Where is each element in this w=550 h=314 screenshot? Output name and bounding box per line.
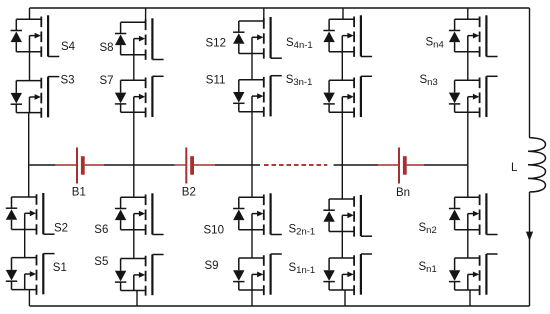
transistor S11 (MOSFET + body diode) <box>233 76 282 117</box>
svg-text:B2: B2 <box>182 187 196 199</box>
transistor S6 (MOSFET + body diode) <box>115 193 164 235</box>
wire middle bus black segment leg1-B1 <box>30 164 56 166</box>
svg-text:S4: S4 <box>61 41 76 53</box>
transistor S8 (MOSFET + body diode) <box>115 18 164 60</box>
svg-text:Sn4: Sn4 <box>426 37 444 51</box>
transistor S2n-1 (MOSFET + body diode) <box>323 195 372 237</box>
transistor S10 (MOSFET + body diode) <box>233 193 282 235</box>
svg-text:S7: S7 <box>100 75 114 87</box>
wire middle bus red segment into Bn <box>378 164 399 166</box>
transistor Sn3 (MOSFET + body diode) <box>449 76 498 117</box>
wire top rail <box>30 7 530 9</box>
svg-text:S11: S11 <box>206 75 226 87</box>
wire leg3 between S12 and S11 <box>251 54 253 80</box>
svg-text:S2n-1: S2n-1 <box>289 223 316 237</box>
wire leg5 Sn3 source to bus to Sn2 drain <box>467 112 469 197</box>
wire middle bus red segment into B2 <box>175 164 187 166</box>
svg-text:S12: S12 <box>206 37 226 49</box>
svg-text:S3: S3 <box>61 75 75 87</box>
svg-text:Sn3: Sn3 <box>420 74 438 88</box>
svg-text:Bn: Bn <box>396 187 410 199</box>
current arrow on right rail <box>526 232 533 241</box>
wire leg2 between S8 and S7 <box>133 55 135 81</box>
transistor S4 (MOSFET + body diode) <box>11 15 60 57</box>
svg-text:S10: S10 <box>204 225 224 237</box>
battery B2 <box>186 148 194 184</box>
wire leg5 exit to bottom rail <box>469 290 471 306</box>
wire leg2 between S6 and S5 <box>133 230 135 259</box>
wire leg1 between S2 and S1 <box>24 230 26 258</box>
wire leg1 between S4 and S3 <box>29 52 31 81</box>
battery B1 <box>77 148 85 184</box>
wire right rail lower segment <box>529 192 531 306</box>
wire middle bus red segment B1-right <box>85 164 104 166</box>
wire leg4 entry from top rail <box>342 8 344 19</box>
wire leg2 entry from top rail <box>145 8 147 22</box>
transistor S3 (MOSFET + body diode) <box>11 77 60 118</box>
wire leg2 S7 source to bus to S6 drain <box>133 112 135 197</box>
transistor Sn1 (MOSFET + body diode) <box>449 254 498 295</box>
transistor S2 (MOSFET + body diode) <box>6 193 55 235</box>
wire middle bus black segment B2-leg3 <box>215 164 260 166</box>
svg-text:S8: S8 <box>100 42 114 54</box>
inductor L <box>528 138 546 192</box>
wire leg3 exit to bottom rail <box>251 290 253 306</box>
wire leg1 entry from top rail <box>29 8 31 19</box>
wire bottom rail <box>30 305 530 307</box>
wire leg4 between S4n-1 and S3n-1 <box>341 52 343 81</box>
wire right rail upper segment <box>529 8 531 138</box>
transistor Sn4 (MOSFET + body diode) <box>449 15 498 57</box>
wire middle bus black segment B1-B2 <box>104 164 175 166</box>
wire middle bus black segment Bn-leg5 <box>424 164 468 166</box>
wire leg3 entry from top rail <box>263 8 265 21</box>
battery Bn <box>399 148 407 184</box>
svg-text:S1: S1 <box>53 262 67 274</box>
transistor S12 (MOSFET + body diode) <box>233 17 282 59</box>
wire middle bus red segment Bn-right <box>407 164 424 166</box>
svg-text:S6: S6 <box>94 224 108 236</box>
svg-text:S4n-1: S4n-1 <box>286 37 313 51</box>
wire middle bus red segment B2-right <box>194 164 215 166</box>
transistor S5 (MOSFET + body diode) <box>115 255 164 296</box>
svg-text:B1: B1 <box>72 187 86 199</box>
wire leg5 entry from top rail <box>467 8 469 19</box>
wire leg2 exit to bottom rail <box>136 291 138 307</box>
svg-text:Sn2: Sn2 <box>419 222 437 236</box>
wire leg1 exit to bottom rail <box>28 290 30 306</box>
wire leg3 S11 source to bus to S10 drain <box>251 112 253 198</box>
transistor S4n-1 (MOSFET + body diode) <box>323 15 372 57</box>
svg-text:S5: S5 <box>94 256 108 268</box>
wire leg5 between Sn4 and Sn3 <box>467 52 469 81</box>
wire leg3 between S10 and S9 <box>251 230 253 258</box>
wire leg4 exit to bottom rail <box>344 290 346 306</box>
wire leg1 S3 source to bus to S2 drain <box>28 113 30 197</box>
transistor S7 (MOSFET + body diode) <box>115 76 164 117</box>
wire middle bus red segment into B1 <box>55 164 77 166</box>
svg-text:S1n-1: S1n-1 <box>289 262 316 276</box>
transistor S3n-1 (MOSFET + body diode) <box>323 76 372 117</box>
svg-text:S2: S2 <box>54 223 68 235</box>
wire leg5 between Sn2 and Sn1 <box>467 230 469 258</box>
svg-text:Sn1: Sn1 <box>419 261 437 275</box>
wire middle bus red dashed continuation segment <box>264 164 327 166</box>
wire leg4 S3n-1 source to bus to S2n-1 drain <box>341 112 343 199</box>
transistor S9 (MOSFET + body diode) <box>233 254 282 295</box>
transistor S1 (MOSFET + body diode) <box>6 254 55 295</box>
wire leg4 between S2n-1 and S1n-1 <box>341 232 343 259</box>
svg-text:S3n-1: S3n-1 <box>286 74 313 88</box>
svg-text:S9: S9 <box>205 260 219 272</box>
transistor Sn2 (MOSFET + body diode) <box>449 193 498 235</box>
wire middle bus black segment leg4 left <box>334 164 379 166</box>
transistor S1n-1 (MOSFET + body diode) <box>323 254 372 295</box>
svg-text:L: L <box>511 162 518 174</box>
